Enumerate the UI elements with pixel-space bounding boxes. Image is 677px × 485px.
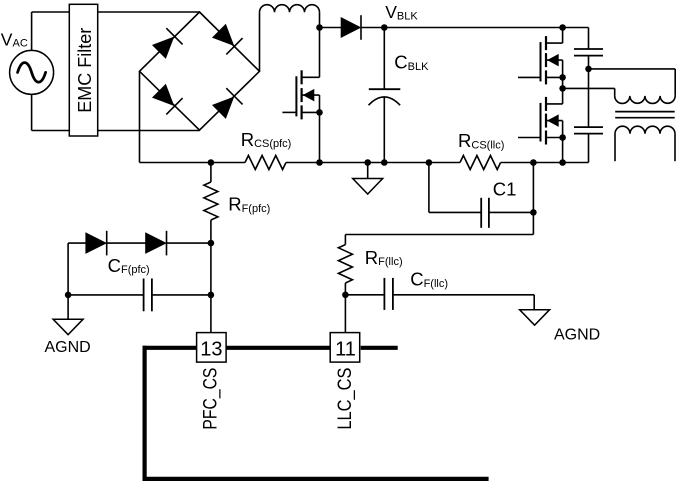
- svg-text:AGND: AGND: [554, 327, 600, 344]
- svg-text:11: 11: [335, 338, 356, 360]
- svg-text:EMC Filter: EMC Filter: [75, 28, 95, 113]
- svg-text:PFC_CS: PFC_CS: [200, 368, 221, 430]
- svg-text:LLC_CS: LLC_CS: [335, 368, 356, 430]
- svg-text:C1: C1: [493, 178, 517, 199]
- svg-text:AGND: AGND: [45, 339, 91, 356]
- svg-text:13: 13: [200, 338, 222, 360]
